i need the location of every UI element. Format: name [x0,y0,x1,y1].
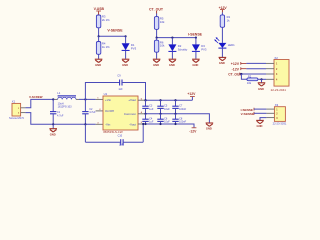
junction [195,37,197,39]
svg-text:-Vin: -Vin [105,123,111,127]
svg-text:-12V: -12V [189,130,197,134]
junction [174,123,176,125]
svg-text:1nF: 1nF [118,88,123,91]
wire R6 to gnd [156,52,158,59]
junction [240,73,242,75]
svg-text:22-23-2041: 22-23-2041 [271,88,287,92]
diode D1 [122,43,137,50]
capacitor C6 [157,114,170,124]
power flag +5V [219,6,228,13]
svg-text:U1: U1 [104,92,108,96]
wire pin3 [240,73,266,75]
junction [174,113,176,115]
svg-text:100nF: 100nF [179,121,187,124]
wire bus to D2 [171,38,173,45]
wire Common rail [146,114,210,123]
svg-text:D2: D2 [178,44,182,48]
LED LED1 [214,37,235,48]
svg-text:Screw M3.5: Screw M3.5 [9,116,24,120]
wire R5 to bus [156,29,158,37]
svg-text:L1: L1 [57,91,61,95]
ground [206,123,214,131]
connector X1 screw terminal [9,100,24,120]
junction [144,99,146,101]
wire bus middle [157,37,196,39]
capacitor C1 [50,99,64,124]
diode D2 [168,44,188,51]
svg-text:1812PS-103: 1812PS-103 [58,106,73,109]
ground [256,120,264,128]
connector X2 [271,56,289,92]
ground [49,124,57,136]
svg-text:GND: GND [169,63,175,67]
wire +Vout rail [146,99,193,101]
wire to R4 [98,36,100,41]
svg-text:PV3: PV3 [201,47,207,51]
svg-text:1uF: 1uF [149,108,154,111]
svg-text:10uF: 10uF [164,108,170,111]
pin 2 stub [21,112,26,114]
junction [156,37,158,39]
svg-text:+Vout: +Vout [128,98,136,102]
svg-text:1nF: 1nF [119,144,124,147]
svg-text:1k 1%: 1k 1% [102,45,110,49]
net label I-SENSE [241,108,254,112]
svg-text:GND: GND [192,63,198,67]
svg-text:GND: GND [50,132,56,136]
ground [95,59,103,67]
junction [174,99,176,101]
op-amp U1 body [103,92,138,134]
junction [260,78,262,80]
svg-text:GND: GND [95,63,101,67]
net label V-SENSE [241,112,254,116]
junction [144,123,146,125]
connector X3 [273,103,287,125]
svg-text:C9: C9 [117,75,121,78]
junction [52,123,54,125]
ground [153,59,161,67]
resistor R6 [154,40,165,52]
wire LED to gnd [221,48,223,57]
wire to R1 [221,12,223,15]
capacitor C5 [157,100,170,114]
svg-text:1uF: 1uF [149,121,154,124]
resistor R3 [96,15,110,28]
svg-text:22-23-3031: 22-23-3031 [273,121,287,125]
svg-text:-12V: -12V [232,67,240,71]
resistor R5 [154,17,165,30]
svg-text:-Vout: -Vout [129,123,136,127]
junction [52,98,54,100]
svg-text:GND: GND [258,87,264,91]
wire L1 to Vin [79,98,96,100]
pin stub On/Off [96,110,103,112]
junction [142,123,144,125]
wire D2 to gnd [171,51,173,58]
svg-text:LED1: LED1 [228,43,235,47]
svg-text:C10: C10 [118,134,123,137]
junction [171,37,173,39]
svg-text:4.7uF: 4.7uF [57,114,64,117]
svg-text:GND: GND [153,63,159,67]
wire pin1 [254,108,266,110]
svg-text:+12V: +12V [187,92,196,96]
svg-text:10uF: 10uF [164,121,170,124]
svg-text:10k: 10k [247,81,252,85]
svg-text:GND: GND [206,127,212,131]
capacitor C9 bypass bridge [85,75,145,101]
svg-text:4.7uF: 4.7uF [89,111,96,114]
pin stub -Vin [96,123,103,125]
ground [169,59,177,67]
capacitor C2 [82,99,96,124]
net label CT_OUT [149,7,164,13]
wire R2 to pin4 [258,78,266,80]
pin 3 stub [266,117,274,119]
wire pin3 to gnd [260,118,266,120]
power flag -15V [189,127,197,133]
svg-text:100nF: 100nF [179,108,187,111]
svg-text:+Vin: +Vin [105,98,111,102]
capacitor C7 [172,100,186,114]
svg-text:V-SENSE: V-SENSE [241,112,254,116]
ground [122,59,130,67]
resistor R2 [247,75,258,85]
svg-text:I-SENSE: I-SENSE [188,33,203,37]
wire bus to R6 [156,38,158,41]
svg-text:PV3: PV3 [131,46,137,50]
wire bus top-left [99,35,126,37]
junction [144,113,146,115]
wire pin2 to bottom rail [25,113,95,125]
power flag -15V [232,67,247,71]
pin stub Common [138,113,146,115]
wire R3 to node [98,28,100,37]
pin 2 stub [266,68,274,70]
pin stub +Vin [96,98,103,100]
svg-text:10k: 10k [160,44,165,48]
capacitor C10 isolation [85,124,143,147]
pin stub -Vout [138,123,146,125]
svg-text:CT_OUT: CT_OUT [149,7,164,11]
pin 1 stub [266,62,274,64]
capacitor C3 [142,100,154,114]
svg-text:R2: R2 [248,75,252,79]
wire pin2 [254,112,266,114]
wire to D1 [125,36,127,43]
svg-text:2k 1%: 2k 1% [102,18,110,22]
svg-text:V-SENSE: V-SENSE [107,29,123,33]
wire pin1 [246,62,266,64]
wire to R5 [156,14,158,17]
svg-text:V-SCREW: V-SCREW [29,95,43,99]
wire D1 to gnd [125,50,127,58]
svg-text:10k: 10k [160,20,165,24]
power flag V-USB [94,7,105,15]
svg-text:Schottky: Schottky [178,48,188,51]
junction [98,35,100,37]
wire pin2 [246,68,266,70]
svg-text:GND: GND [257,124,263,128]
wire D3 to gnd [195,51,197,58]
junction [125,35,127,37]
capacitor C4 [142,114,154,124]
diode D3 [192,44,207,51]
ground [192,59,200,67]
pin 2 stub [266,112,274,114]
power flag +15V [187,92,196,100]
wire -Vout rail [146,124,194,127]
junction [159,113,161,115]
capacitor C8 [172,114,186,124]
pin 1 stub [21,107,26,109]
svg-text:+12V: +12V [231,62,240,66]
svg-text:GND: GND [219,61,225,65]
ground [258,79,266,91]
net label CT_OUT [228,73,241,77]
junction [159,123,161,125]
junction [144,99,146,101]
svg-text:On/Off: On/Off [105,109,114,113]
resistor R4 [96,42,110,55]
svg-text:V-USB: V-USB [94,7,105,11]
junction [84,98,86,100]
wire R4 to gnd [98,54,100,59]
power flag +15V [231,62,247,66]
resistor R1 [220,15,230,27]
wire R1 to LED [221,27,223,43]
wire bus to D3 [195,38,197,45]
inductor L1 [55,91,79,108]
svg-text:Common: Common [124,112,137,116]
pin 4 stub [266,78,274,80]
svg-text:1k: 1k [227,18,231,22]
wire pin1 to top rail [25,99,54,107]
junction [84,123,86,125]
svg-text:GND: GND [122,63,128,67]
ground [219,57,227,65]
pin stub +Vout [138,99,146,101]
wire down to R2 [241,74,247,79]
pin 3 stub [266,73,274,75]
junction [159,99,161,101]
pin 1 stub [266,108,274,110]
